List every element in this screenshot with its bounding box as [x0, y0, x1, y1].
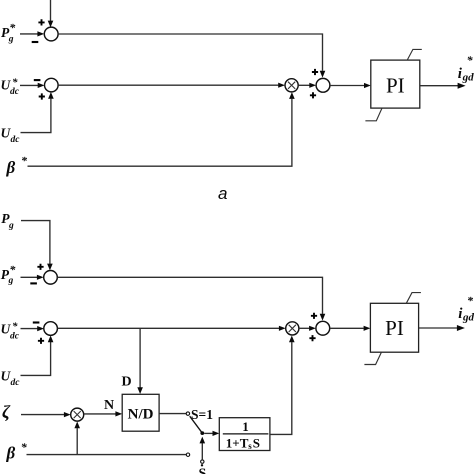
svg-text:*: *	[467, 293, 474, 307]
block U2: PI controller	[370, 303, 418, 352]
node: arrowhead right into N/D	[115, 411, 122, 416]
wire: S4 output right then down to S6	[57, 277, 322, 314]
saturation mark bottom-left of U1	[365, 108, 382, 121]
node: output arrowhead igd*	[458, 83, 466, 89]
node: arrowhead up into M2	[289, 336, 295, 343]
wire: Udc* label to S2	[20, 84, 39, 86]
switch arm S=1	[190, 416, 202, 433]
sign + (top input of S4)	[37, 264, 43, 270]
wire: S6 output to PI block U2	[330, 327, 364, 329]
block B2: 1/(1+TsS) filter	[219, 418, 270, 451]
svg-text:*: *	[467, 53, 474, 67]
sign - (left input of S5)	[33, 321, 40, 323]
wire: beta* line right then up into M1	[28, 99, 292, 167]
wire: M1 output to summer S3	[298, 84, 309, 86]
node: arrowhead right into S5	[37, 326, 44, 331]
summer S2 (Udc junction)	[45, 78, 59, 92]
svg-text:*: *	[12, 321, 18, 333]
saturation mark bottom-left of U2	[364, 352, 381, 364]
svg-text:dc: dc	[10, 332, 20, 342]
svg-text:g: g	[8, 35, 14, 45]
node: arrowhead up to switch pole	[200, 437, 206, 444]
node: arrowhead right into S1	[37, 31, 44, 36]
label igd* (bottom output)	[458, 293, 474, 323]
summer S3	[316, 78, 330, 92]
node: arrowhead down into S6	[320, 314, 326, 321]
node: arrowhead right into S2	[38, 83, 45, 88]
svg-text:g: g	[8, 276, 14, 286]
sign - (left input of S2)	[34, 79, 41, 81]
block U1: PI controller	[371, 60, 420, 108]
sign + (left input of S6)	[309, 335, 315, 341]
wire: D branch down into N/D block	[139, 328, 141, 387]
wire: Pg* label to S4	[21, 276, 38, 278]
svg-text:N: N	[104, 398, 114, 413]
svg-text:β: β	[6, 443, 16, 462]
wire: switch pole to B2	[204, 432, 213, 434]
node: arrowhead up into S5	[48, 335, 54, 342]
wire: beta* branch up into M3	[76, 428, 78, 455]
multiplier M1	[285, 79, 298, 92]
wire: zeta to multiplier M3	[21, 414, 64, 416]
node: arrowhead right into U1	[364, 83, 371, 88]
svg-text:s: s	[248, 441, 252, 451]
sign + (top input of S6)	[311, 313, 317, 319]
label S-dot (switch control)	[199, 464, 207, 474]
saturation mark top-right of U2	[406, 293, 421, 304]
node: switch contact (open) for N/D output	[186, 412, 189, 415]
node: arrowhead right into S4	[37, 275, 44, 280]
wire: Udc feedback up into S2	[21, 99, 51, 133]
svg-text:1: 1	[242, 419, 249, 434]
node: arrowhead down into S3	[320, 71, 326, 78]
label beta* (top)	[6, 154, 29, 178]
svg-text:1+T: 1+T	[226, 436, 249, 451]
label Pg* (bottom)	[1, 262, 17, 286]
wire: M3 output to N/D	[84, 413, 116, 415]
svg-text:dc: dc	[10, 87, 20, 97]
svg-text:N/D: N/D	[128, 406, 154, 422]
node: output arrowhead igd*	[457, 325, 465, 331]
svg-text:*: *	[21, 154, 28, 168]
summer S5 (Udc junction)	[44, 322, 58, 336]
wire: Udc feedback up into S5	[21, 342, 51, 375]
multiplier M2	[286, 322, 299, 335]
wire: S3 output to PI block U1	[330, 85, 364, 87]
node: arrowhead down into N/D	[137, 387, 143, 394]
svg-text:D: D	[122, 374, 132, 389]
svg-text:gd: gd	[462, 72, 474, 84]
svg-text:PI: PI	[386, 73, 405, 97]
svg-text:dc: dc	[11, 135, 21, 145]
sign + (bottom input of S2)	[39, 93, 45, 99]
node: arrowhead right into M2	[279, 326, 286, 331]
block text 1/(1+TsS)	[226, 419, 260, 451]
node: switch pole (filled)	[200, 431, 204, 435]
wire: S2 output to multiplier M1	[58, 84, 278, 86]
svg-text:*: *	[21, 440, 28, 454]
summer S4 (Pg junction)	[44, 271, 58, 285]
wire: M2 output to S6	[299, 327, 309, 329]
sign + (top input of S1)	[38, 19, 44, 25]
svg-text:S: S	[199, 467, 207, 474]
node: arrowhead right into U2	[364, 326, 371, 331]
label igd* (top output)	[458, 53, 474, 84]
node: arrowhead right into S3	[309, 83, 316, 88]
wire: S-dot control line up	[201, 443, 203, 460]
svg-text:dc: dc	[11, 378, 21, 388]
label Udc (top)	[1, 125, 21, 144]
wire: Pg input from top edge into summer S1	[50, 0, 52, 21]
svg-text:ζ: ζ	[2, 402, 11, 422]
sign + (bottom input of S5)	[38, 338, 44, 344]
wire: S1 output right then down to summer S3	[58, 34, 322, 71]
multiplier M3	[71, 408, 84, 421]
svg-text:gd: gd	[462, 312, 474, 324]
svg-text:S=1: S=1	[191, 407, 213, 422]
node: arrowhead up into M3	[74, 422, 80, 429]
svg-text:*: *	[9, 262, 16, 276]
wire: U2 output	[419, 327, 458, 329]
node: switch contact (open) for beta*	[186, 453, 189, 456]
sign - (left input of S4)	[30, 282, 37, 284]
node: arrowhead up into M1	[289, 92, 295, 99]
saturation mark top-right of U1	[407, 49, 422, 60]
summer S1 (Pg* junction)	[44, 27, 58, 41]
svg-text:PI: PI	[385, 316, 404, 340]
svg-text:*: *	[12, 76, 18, 88]
summer S6	[316, 321, 330, 335]
label Udc* (top)	[1, 76, 20, 97]
node: arrowhead up into S2	[48, 92, 54, 99]
node: arrowhead down into S1	[48, 21, 54, 28]
wire: N/D output to switch contact	[159, 413, 186, 415]
wire: U1 output	[420, 85, 458, 87]
node: arrowhead right into B2	[213, 431, 220, 436]
wire: Udc* label to S5	[21, 328, 39, 330]
wire: B2 output right then up into M2	[270, 342, 292, 434]
svg-text:a: a	[218, 184, 227, 203]
label Pg (bottom)	[1, 211, 14, 231]
wire: S5 output to multiplier M2	[57, 327, 279, 329]
wire: Pg* label to S1	[20, 33, 38, 35]
sign + (left input of S3)	[310, 92, 316, 98]
node: arrowhead right into M3	[64, 412, 71, 417]
node: arrowhead right into S6	[309, 326, 316, 331]
node: arrowhead right into M1	[278, 83, 285, 88]
wire: Pg input right then down into S4	[21, 221, 50, 264]
sign - (left input of S1)	[32, 41, 39, 43]
svg-text:S: S	[253, 436, 260, 451]
svg-text:g: g	[8, 221, 14, 231]
block B1: N/D divider	[122, 394, 159, 431]
label Udc (bottom)	[1, 369, 21, 388]
wire: beta* line to switch contact	[27, 454, 187, 456]
label Pg* (top)	[1, 20, 16, 44]
node: S-dot control contact (open)	[201, 460, 204, 463]
node: arrowhead down into S4	[47, 264, 53, 271]
svg-text:β: β	[6, 158, 16, 177]
label Udc* (bottom)	[1, 321, 20, 342]
svg-text:*: *	[9, 20, 16, 34]
sign + (top input of S3)	[312, 69, 318, 75]
label beta* (bottom)	[6, 440, 28, 463]
